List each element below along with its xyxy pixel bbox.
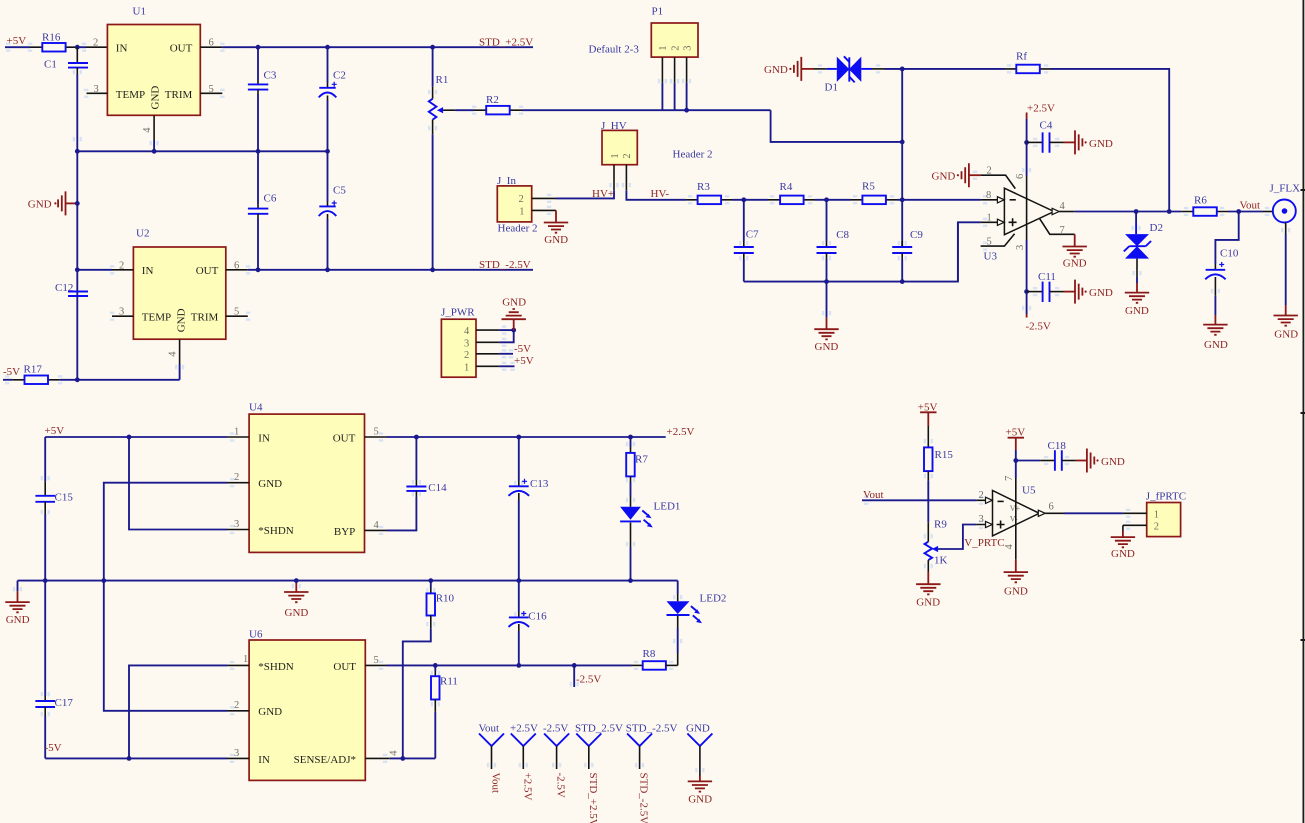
svg-text:TEMP: TEMP [116,89,145,101]
regulator U4 box [249,401,365,552]
pin 4 U3 output [1052,208,1059,214]
pin 1 J_PWR [476,365,499,367]
svg-text:4: 4 [1004,544,1015,550]
svg-text:GND: GND [1089,138,1113,150]
svg-text:1: 1 [464,362,469,373]
wire +5V row to U4 [45,436,227,438]
svg-text:Header 2: Header 2 [498,222,538,234]
node R5/C9 junction [900,197,905,202]
svg-text:C18: C18 [1048,440,1067,452]
pin 3 U6 [227,757,249,759]
pin 2 U4 [227,482,249,484]
svg-text:8: 8 [986,190,991,201]
port antenna -2.5V [543,723,569,798]
svg-text:IN: IN [116,43,128,55]
svg-text:6: 6 [234,260,239,271]
capacitor C1 [44,47,88,74]
svg-text:U6: U6 [249,628,263,640]
svg-text:OUT: OUT [333,432,356,444]
svg-text:GND: GND [688,793,712,805]
connector J_HV [601,120,713,165]
connector J_PWR [441,307,476,378]
svg-text:+5V: +5V [514,355,534,367]
connector J_fPRTC [1146,490,1186,536]
svg-text:5: 5 [987,236,992,247]
net label -2.5V stub [574,665,601,687]
svg-text:GND: GND [932,171,956,183]
svg-text:TRIM: TRIM [191,312,219,324]
pin 2 P1 [674,57,676,83]
port antenna +2.5V [510,723,538,801]
svg-text:STD_+2.5V: STD_+2.5V [479,36,533,48]
ground GND earth at U5 pin4 [1004,560,1028,598]
pin 4 J_PWR [476,329,499,331]
svg-text:OUT: OUT [196,265,219,277]
svg-text:3: 3 [234,748,239,759]
pin 1 U4 [227,436,249,438]
power port +2.5V [1027,103,1055,120]
header P1 [651,6,698,58]
svg-text:C5: C5 [333,185,346,197]
node C18 junction [1013,458,1018,463]
regulator U6 box [249,628,365,780]
resistor R11 [431,665,458,758]
svg-text:2: 2 [93,38,98,49]
svg-text:SENSE/ADJ*: SENSE/ADJ* [294,754,356,766]
svg-text:HV-: HV- [651,188,670,200]
resistor R2 [474,94,522,115]
svg-text:C11: C11 [1038,271,1056,283]
op-amp U1 regulator box [107,6,200,116]
svg-text:GND: GND [150,86,162,110]
pin 5 U1 [200,92,222,94]
svg-text:R10: R10 [436,593,455,605]
svg-text:HV+: HV+ [592,188,614,200]
svg-text:IN: IN [258,432,270,444]
svg-text:-5V: -5V [45,742,62,754]
svg-text:GND: GND [1004,586,1028,598]
svg-text:2: 2 [670,46,681,51]
LED2 [667,581,727,666]
pin 7 U3 [1040,218,1075,234]
node C8 junction [824,197,829,202]
svg-text:-2.5V: -2.5V [576,673,601,685]
svg-text:3: 3 [234,519,239,530]
capacitor C8 [817,200,850,282]
svg-text:4: 4 [389,750,400,756]
wire U4 shdn tie to +5V [129,437,227,530]
pin 3 U2 [112,315,133,317]
svg-text:R6: R6 [1194,195,1207,207]
svg-text:+5V: +5V [1006,426,1026,438]
svg-text:3: 3 [682,46,693,51]
capacitor C4 [1027,120,1113,155]
pin 2 U2 [77,269,112,271]
wire Vout to U5 pin2 [862,499,976,501]
svg-text:+2.5V: +2.5V [521,773,533,801]
svg-text:-5V: -5V [3,366,20,378]
svg-text:C8: C8 [836,229,849,241]
svg-text:1: 1 [610,153,621,158]
capacitor C5 polarized [319,151,347,269]
pin 1 U3 [957,222,959,281]
capacitor C14 [387,437,448,530]
svg-text:4: 4 [168,351,179,357]
svg-text:1: 1 [243,654,248,665]
resistor R3 [686,181,768,204]
ground GND earth under R9 [916,572,940,609]
svg-text:2: 2 [622,153,633,158]
svg-text:C3: C3 [264,70,277,82]
svg-text:STD_-2.5V: STD_-2.5V [638,773,650,823]
svg-text:D2: D2 [1150,222,1163,234]
node J_PWR gnd junction [511,328,516,333]
pin 3 U5 [976,524,992,526]
ground GND earth above J_PWR [502,296,527,330]
pin 5 U2 [226,315,248,317]
svg-text:R4: R4 [780,181,793,193]
power port -2.5V [1026,314,1051,332]
svg-text:5: 5 [209,84,214,95]
svg-text:V-: V- [1010,514,1018,523]
svg-text:J_FLX: J_FLX [1270,183,1301,195]
pin 3 U3 vertical [1026,240,1028,314]
node C11 junction [1024,289,1029,294]
svg-text:*SHDN: *SHDN [258,661,294,673]
pin 4 U6 [365,757,390,759]
svg-text:GND: GND [1089,287,1113,299]
svg-text:2: 2 [119,260,124,271]
wire left vertical rail [76,74,78,380]
svg-text:3: 3 [464,338,469,349]
ground GND power port at U3 pin2 [932,163,981,187]
svg-text:GND: GND [1111,548,1135,560]
pin 8 U3 [981,199,1005,201]
potentiometer R9 [925,519,977,572]
svg-text:5: 5 [374,426,379,437]
svg-text:Vout: Vout [863,489,884,501]
svg-text:-2.5V: -2.5V [555,773,567,798]
svg-text:2: 2 [464,350,469,361]
svg-text:OUT: OUT [170,43,193,55]
port antenna Vout [479,723,505,794]
wire to U1 pin2 [77,46,86,48]
power port +5V at U5 [1006,426,1026,450]
pin 2 J_In [532,197,556,199]
capacitor C17 [35,581,73,759]
pin 6 U3 vertical [1026,119,1028,176]
pin 3 U4 [227,529,249,531]
node GND tap junction [75,201,80,206]
pin 4 U5 vertical [1015,525,1017,560]
wire HV+ [556,190,614,198]
wire output row [1075,211,1182,213]
resistor R7 [626,437,648,497]
op-amp U2 regulator box [133,228,225,340]
svg-text:Rf: Rf [1016,51,1027,63]
resistor R8 [632,648,678,670]
svg-text:R9: R9 [934,519,947,531]
ground GND earth at J_fPRTC [1111,525,1135,560]
capacitor C3 [248,47,277,151]
svg-text:GND: GND [502,296,526,308]
svg-text:R2: R2 [486,94,499,106]
svg-text:STD_+2.5V: STD_+2.5V [587,773,599,823]
capacitor C9 [892,229,923,281]
capacitor C6 [248,151,277,269]
connector J_FLX [1263,183,1301,341]
svg-text:2: 2 [234,472,239,483]
capacitor C11 [1027,271,1113,303]
svg-text:Default 2-3: Default 2-3 [589,43,640,55]
pin 7 U5 vertical [1015,450,1017,478]
wire U4 gnd pin2 rail [104,483,227,711]
pin 3 P1 [686,57,688,83]
pin 6 U5 output [1038,510,1045,516]
svg-text:C10: C10 [1220,247,1239,259]
svg-text:LED1: LED1 [654,500,681,512]
svg-text:U5: U5 [1022,484,1036,496]
svg-text:D1: D1 [825,81,838,93]
wire bottom row to STD_-2.5V [248,269,533,271]
wire +5V stub [5,46,30,48]
svg-text:C14: C14 [428,482,447,494]
svg-text:C2: C2 [333,70,346,82]
svg-text:4: 4 [464,326,470,337]
svg-text:R1: R1 [436,74,449,86]
ground GND earth at J_In [544,210,568,245]
node U1 pin4 junction [152,149,157,154]
svg-text:7: 7 [1060,225,1065,236]
wire U6 out row [387,664,632,666]
pin 2 J_HV [625,165,627,191]
wire U5 out to J_fPRTC [1064,512,1123,514]
node U2-in junction [75,267,80,272]
svg-text:C16: C16 [528,610,547,622]
svg-text:4: 4 [142,127,153,133]
connector J_In [497,175,538,234]
sheet border right edge [1302,0,1304,823]
svg-text:Vout: Vout [1240,199,1261,211]
wire P1 row down to D1 row [771,110,903,142]
svg-text:+2.5V: +2.5V [510,723,538,735]
node D1 output junction [900,67,905,72]
svg-text:J_PWR: J_PWR [441,307,475,319]
svg-text:C6: C6 [264,193,277,205]
pin 6 U2 [226,269,248,271]
node C7 junction [741,197,746,202]
pin 5 U3 [981,234,1015,246]
svg-text:R16: R16 [42,32,61,44]
svg-text:1: 1 [519,206,524,217]
port antenna STD_-2.5V [626,723,678,823]
svg-text:C15: C15 [55,491,74,503]
svg-text:Header 2: Header 2 [673,149,713,161]
ground GND earth under C8 [814,282,838,353]
capacitor C16 polarized [509,581,548,666]
svg-text:2: 2 [234,700,239,711]
svg-text:STD_-2.5V: STD_-2.5V [479,259,531,271]
ground GND power port left [28,191,78,215]
ground GND earth at U3 pin7 [1063,234,1087,269]
svg-text:-2.5V: -2.5V [1026,320,1051,332]
svg-text:GND: GND [1204,339,1228,351]
power port +5V at R15 [918,401,938,426]
pin 2 U5 [976,499,992,501]
wire D1 to Rf [885,68,1005,70]
node C4 junction [1024,140,1029,145]
op-amp U3 [958,119,1075,314]
wire sense row [390,757,436,759]
pin 2 U3 [981,175,1016,188]
pin 2 J_fPRTC [1123,524,1147,526]
pin 1 J_In [532,209,556,211]
svg-text:C4: C4 [1040,120,1053,132]
svg-text:1: 1 [1154,509,1159,520]
svg-text:C9: C9 [910,229,923,241]
svg-text:C1: C1 [44,59,57,71]
svg-text:*SHDN: *SHDN [258,525,294,537]
svg-text:BYP: BYP [334,526,355,538]
svg-text:R11: R11 [440,675,458,687]
svg-text:4: 4 [1060,201,1066,212]
svg-text:Vout: Vout [479,723,500,735]
port antenna STD_2.5V [575,723,623,823]
svg-text:GND: GND [6,614,30,626]
ground GND earth far left [5,581,29,626]
node D1 column junction [900,140,905,145]
svg-text:R15: R15 [935,449,954,461]
ground GND earth mid row [284,581,308,620]
svg-text:C13: C13 [530,478,549,490]
wire mid row [77,150,327,152]
svg-text:U4: U4 [249,401,263,413]
resistor R15 [924,426,953,522]
svg-text:3: 3 [119,307,124,318]
svg-text:7: 7 [1004,476,1015,481]
svg-text:TEMP: TEMP [142,312,171,324]
svg-text:6: 6 [1015,174,1026,179]
capacitor C12 [55,282,88,296]
svg-text:R8: R8 [643,648,656,660]
wire HV- [626,190,686,200]
wire GND mid row [18,580,678,582]
node left rail mid junction [43,578,48,583]
op-amp U5 [976,450,1064,560]
capacitor C18 [1016,440,1125,472]
pin 5 U4 [365,436,387,438]
svg-text:+2.5V: +2.5V [1027,103,1055,115]
svg-text:5: 5 [234,307,239,318]
LED1 [620,497,680,581]
node junction R16/C1/U1 [75,45,80,50]
svg-text:R7: R7 [635,453,648,465]
svg-text:GND: GND [258,478,282,490]
pin 1 U6 [228,664,250,666]
svg-text:GND: GND [1125,305,1149,317]
wire U6 shdn tie to -5V [129,665,228,758]
svg-text:GND: GND [544,234,568,246]
svg-text:-5V: -5V [514,343,531,355]
resistor R6 [1181,195,1262,216]
svg-text:1: 1 [658,46,669,51]
svg-text:GND: GND [1274,329,1298,341]
svg-text:U1: U1 [133,6,146,18]
node P1 pin3 junction [684,108,689,113]
pin 3 J_PWR [476,341,499,343]
capacitor C15 [35,437,73,581]
pin 2 U1 [86,46,107,48]
svg-text:C17: C17 [55,697,74,709]
svg-text:2: 2 [519,194,524,205]
wire HV column [901,69,903,247]
svg-text:STD_-2.5V: STD_-2.5V [626,723,678,735]
pin 2 U6 [227,710,249,712]
svg-text:5: 5 [374,655,379,666]
svg-text:2: 2 [987,165,992,176]
wire R2 to P1 pins [522,109,771,111]
pin 4 U2 [179,339,181,364]
capacitor C13 polarized [509,437,549,581]
pin 3 U1 [87,92,108,94]
svg-text:-2.5V: -2.5V [543,723,568,735]
svg-text:U3: U3 [984,251,998,263]
pin 2 J_PWR [476,353,499,355]
svg-text:R5: R5 [862,180,875,192]
svg-text:+5V: +5V [7,35,27,47]
capacitor C7 [734,200,759,282]
svg-text:GND: GND [1101,456,1125,468]
node R17 row junction [75,377,80,382]
resistor R10 [403,581,455,759]
pin 4 U1 [153,115,155,140]
svg-text:2: 2 [1154,521,1159,532]
svg-text:J_fPRTC: J_fPRTC [1146,490,1186,502]
node Vout junction [1236,209,1241,214]
pin 6 U1 [200,46,222,48]
svg-text:IN: IN [142,265,154,277]
svg-text:GND: GND [28,198,52,210]
svg-text:3: 3 [94,84,99,95]
svg-text:V_PRTC: V_PRTC [964,537,1004,549]
svg-text:+2.5V: +2.5V [667,426,695,438]
pin 4 U4 [365,529,387,531]
svg-text:GND: GND [1063,258,1087,270]
port antenna GND [686,723,712,806]
svg-text:6: 6 [209,38,214,49]
svg-text:TRIM: TRIM [165,89,193,101]
svg-text:R17: R17 [24,363,43,375]
svg-text:3: 3 [979,514,984,525]
pin 1 J_fPRTC [1123,512,1147,514]
pin 1 J_HV [613,165,615,191]
svg-text:Vout: Vout [490,773,502,794]
svg-text:GND: GND [686,723,710,735]
wire caps bottom row [744,222,981,281]
svg-text:GND: GND [258,706,282,718]
wire +2.5V row [387,436,666,438]
node mid-row junction [75,149,80,154]
svg-text:STD_2.5V: STD_2.5V [575,723,623,735]
wire -5V row to U6 [45,757,227,759]
ground GND power port at D1 [764,57,814,81]
svg-text:1: 1 [987,212,992,223]
svg-text:1K: 1K [934,554,948,566]
pin 5 U6 [365,664,386,666]
svg-text:C7: C7 [746,229,759,241]
svg-text:GND: GND [285,607,309,619]
resistor R17 [3,363,180,384]
